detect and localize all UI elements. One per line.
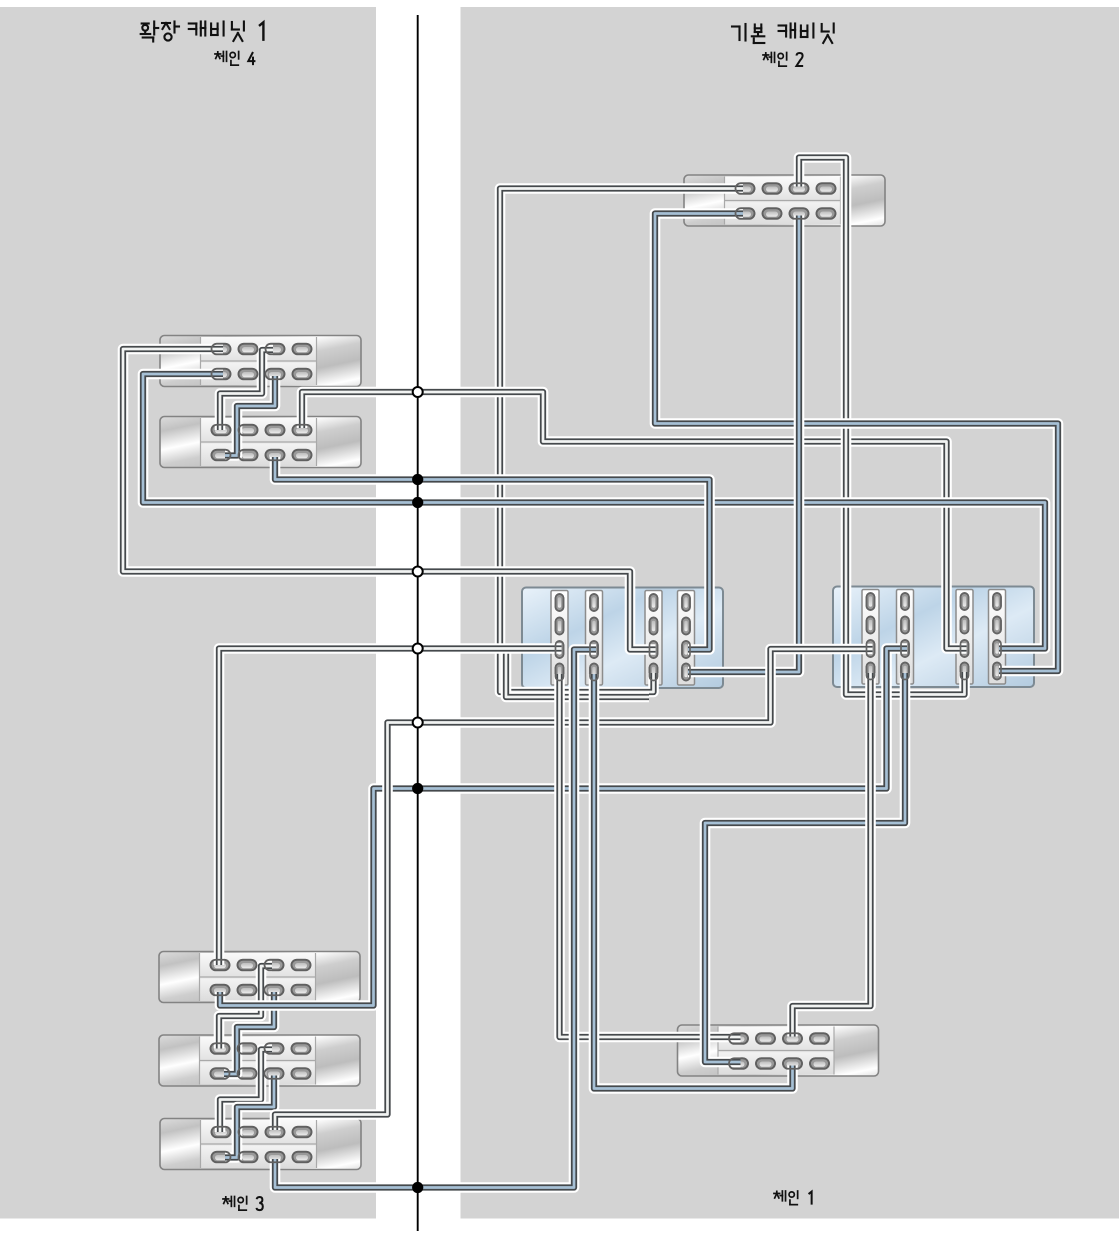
- shelf L5 IOMA port 3: [293, 1127, 312, 1138]
- shelf L2 IOMA port 1: [239, 425, 258, 436]
- shelf L4 IOMA port 3: [292, 1043, 311, 1054]
- shelf L2 IOMA port 2: [266, 425, 285, 436]
- shelf R2 IOMA port 0: [729, 1033, 748, 1044]
- controller C1 HBA slot 4: [678, 591, 695, 686]
- label: chain 3: [223, 1197, 235, 1207]
- shelf L3 IOMA port 1: [238, 960, 257, 971]
- shelf L2 IOMB port 1: [239, 450, 258, 461]
- shelf L4 IOMB port 3: [292, 1068, 311, 1079]
- junction open circle (chain4 IOMA): [413, 387, 423, 397]
- shelf L2 IOMA port 0: [212, 425, 231, 436]
- shelf L5 IOMA port 2: [266, 1127, 285, 1138]
- controller C2 HBA slot 4: [989, 590, 1006, 685]
- controller C1 chassis: [522, 588, 723, 689]
- base cabinet panel: [461, 7, 1119, 1219]
- shelf L4 IOMA port 2: [265, 1043, 284, 1054]
- wire L4 to L5 IOMA: [220, 1050, 272, 1133]
- wire L2-IOMB-p2 to C1-slot4 row3: [275, 457, 710, 650]
- shelf L1 IOMB port 2: [266, 369, 285, 380]
- shelf R2 IOMB port 1: [756, 1058, 775, 1069]
- shelf R1 IOMA port 1: [763, 183, 782, 194]
- wire L3 to L4 IOMA: [219, 966, 272, 1049]
- shelf L5 IOMB port 3: [293, 1152, 312, 1163]
- shelf R1 IOMA port 2: [790, 183, 809, 194]
- wire L3-IOMB-p0 to C2-slot2 row3: [220, 649, 907, 1006]
- disk shelf L1 body: [160, 336, 361, 387]
- shelf L1 IOMB port 0: [212, 369, 231, 380]
- shelf L4 IOMB port 1: [238, 1068, 257, 1079]
- wire L2-IOMA-p3 to C2-slot3 row3: [302, 392, 967, 649]
- junction open circle (chain3 IOMA tail): [413, 718, 423, 728]
- wire L1 to L2 IOMA: [220, 350, 273, 430]
- shelf L4 IOMB port 2: [265, 1068, 284, 1079]
- shelf L5 IOMB port 2: [266, 1152, 285, 1163]
- shelf L2 IOMB port 0: [212, 450, 231, 461]
- label: chain 2: [763, 53, 775, 63]
- shelf L3 IOMB port 3: [292, 985, 311, 996]
- wire L5-IOMA-p2 to C2-slot1 row3: [275, 649, 873, 1130]
- shelf L3 IOMB port 1: [238, 985, 257, 996]
- controller C2 HBA slot 1: [862, 590, 879, 685]
- expansion cabinet panel: [0, 7, 376, 1219]
- port rings overlay: [211, 183, 1002, 1162]
- controller C1 HBA slot 3: [645, 591, 662, 686]
- label: chain 1: [774, 1191, 786, 1201]
- shelf L1 IOMB port 1: [239, 369, 258, 380]
- wire R1-IOMA-p2 to C2-slot3: [799, 158, 965, 695]
- junction dot (chain3 IOMB): [412, 783, 423, 794]
- shelf L1 IOMA port 3: [293, 344, 312, 355]
- wire L1 to L2 IOMB: [225, 376, 275, 456]
- title: base cabinet: [732, 24, 746, 41]
- shelf L4 IOMA port 0: [211, 1043, 230, 1054]
- shelf L4 IOMA port 1: [238, 1043, 257, 1054]
- shelf L3 IOMB port 2: [265, 985, 284, 996]
- disk shelf R2 body: [678, 1025, 879, 1076]
- junction dot (chain4 IOMB p0): [412, 497, 423, 508]
- shelf L3 IOMB port 0: [211, 985, 230, 996]
- shelf R2 IOMB port 0: [729, 1058, 748, 1069]
- junction dot (chain4 IOMB): [412, 474, 423, 485]
- wire R1-IOMB-p2 to C1-slot4: [688, 216, 799, 673]
- wire stub under C1: [506, 649, 649, 698]
- shelf L1 IOMB port 3: [293, 369, 312, 380]
- shelf L5 IOMB port 1: [239, 1152, 258, 1163]
- disk shelf L4 body: [159, 1035, 360, 1086]
- junction open circle (chain4 IOMA p0): [413, 567, 423, 577]
- controller C1 HBA slot 1: [551, 591, 568, 686]
- shelf L5 IOMA port 0: [212, 1127, 231, 1138]
- wire L5-IOMB-p2 to C1-slot2 row3: [275, 650, 596, 1188]
- wire C2-slot1 to R2-IOMA-p2: [793, 673, 871, 1037]
- wire L1-IOMA-p0 to C1-slot3 row3: [123, 349, 656, 650]
- shelf L1 IOMA port 0: [212, 344, 231, 355]
- shelf L3 IOMA port 2: [265, 960, 284, 971]
- shelf R2 IOMB port 3: [810, 1058, 829, 1069]
- wire C1-slot2 to R2-IOMB-p2: [594, 674, 793, 1089]
- shelf L2 IOMB port 2: [266, 450, 285, 461]
- label: chain 4: [215, 52, 227, 62]
- controller C2 HBA slot 2: [897, 590, 914, 685]
- wire R1-IOMB-p0 to C2-slot4: [655, 214, 1058, 672]
- shelf R1 IOMA port 3: [817, 183, 836, 194]
- shelf R2 IOMA port 1: [756, 1033, 775, 1044]
- wire C1-slot1 to R2-IOMA-p0: [560, 674, 741, 1037]
- shelf L2 IOMB port 3: [293, 450, 312, 461]
- controller C2 HBA slot 3: [956, 590, 973, 685]
- junction open circle (chain3 IOMA): [413, 644, 423, 654]
- wire C2-slot2 to R2-IOMB-p0: [705, 673, 905, 1062]
- shelf L3 IOMA port 0: [211, 960, 230, 971]
- shelf R2 IOMA port 3: [810, 1033, 829, 1044]
- title: expansion cabinet 1: [141, 22, 159, 42]
- shelf R1 IOMB port 3: [817, 208, 836, 219]
- wire L3 to L4 IOMB: [224, 992, 274, 1074]
- wire L3-IOMA-p0 to C1-slot1 row3: [219, 649, 562, 966]
- controller C1 HBA slot 2: [586, 591, 603, 686]
- shelf L1 IOMA port 1: [239, 344, 258, 355]
- shelf L1 IOMA port 2: [266, 344, 285, 355]
- disk shelf R1 body: [684, 175, 885, 226]
- shelf L2 IOMA port 3: [293, 425, 312, 436]
- wire R1-IOMA-p0 to C1-slot3: [500, 189, 743, 693]
- cabinet boundary line: [417, 15, 419, 1231]
- controller C2 chassis: [833, 587, 1034, 688]
- shelf R1 IOMB port 1: [763, 208, 782, 219]
- shelf L4 IOMB port 0: [211, 1068, 230, 1079]
- shelf R2 IOMA port 2: [783, 1033, 802, 1044]
- shelf R1 IOMB port 0: [736, 208, 755, 219]
- shelf R2 IOMB port 2: [783, 1058, 802, 1069]
- disk shelf L3 body: [159, 952, 360, 1003]
- junction dot (chain3 IOMB tail): [412, 1182, 423, 1193]
- wire L1-IOMB-p0 to C2-slot4 row3: [143, 374, 1045, 649]
- shelf L3 IOMA port 3: [292, 960, 311, 971]
- disk shelf L2 body: [160, 417, 361, 468]
- shelf L5 IOMA port 1: [239, 1127, 258, 1138]
- shelf R1 IOMA port 0: [736, 183, 755, 194]
- shelf R1 IOMB port 2: [790, 208, 809, 219]
- shelf L5 IOMB port 0: [212, 1152, 231, 1163]
- disk shelf L5 body: [160, 1119, 361, 1170]
- wire L4 to L5 IOMB: [225, 1076, 274, 1158]
